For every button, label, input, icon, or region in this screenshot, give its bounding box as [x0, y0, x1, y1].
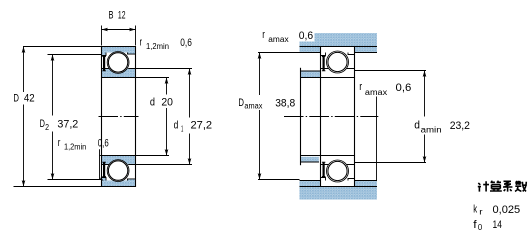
hanzi shu: [515, 181, 527, 192]
svg-text:k: k: [473, 204, 477, 216]
centerline left view: [99, 116, 139, 118]
hanzi suan: [490, 181, 502, 192]
svg-text:0,6: 0,6: [98, 138, 109, 150]
svg-text:1: 1: [181, 124, 184, 133]
svg-text:14: 14: [493, 219, 502, 231]
svg-text:D: D: [13, 93, 19, 105]
top section: ring outlines: [102, 47, 136, 78]
svg-text:23,2: 23,2: [450, 120, 470, 132]
svg-text:r: r: [140, 37, 143, 49]
dimension d 20: [136, 78, 170, 156]
housing seat lines top: [300, 46, 378, 48]
bearing side faces (left view): [102, 78, 136, 156]
bottom section: ball: [108, 161, 127, 180]
dimension Damax 38,8: [258, 53, 300, 180]
hanzi xi: [503, 181, 512, 191]
dimension d1 27,2: [136, 69, 193, 165]
bottom section: outer ring (blue): [102, 178, 136, 187]
dimension D 42: [14, 47, 102, 187]
housing seat lines bottom: [300, 186, 378, 188]
svg-text:42: 42: [24, 93, 35, 105]
svg-text:d: d: [174, 119, 179, 131]
centerline right view: [284, 116, 378, 118]
top section: shield (left): [103, 57, 105, 71]
svg-text:d: d: [414, 120, 420, 132]
hanzi ji: [478, 181, 489, 191]
svg-text:d: d: [150, 96, 155, 108]
dimension B 12: [102, 26, 136, 46]
shaft shoulder bottom (blue): [301, 157, 319, 162]
svg-text:37,2: 37,2: [57, 118, 78, 130]
right top section (white rings): [321, 47, 355, 78]
svg-text:0,6: 0,6: [180, 37, 192, 49]
bottom section: ring outlines: [102, 156, 136, 187]
svg-text:amax: amax: [244, 101, 262, 110]
svg-text:38,8: 38,8: [275, 97, 295, 109]
dimension D2 37,2: [48, 55, 102, 180]
right bottom section (white rings): [321, 156, 355, 187]
bottom section: shield (left): [103, 162, 105, 176]
svg-text:B: B: [109, 9, 114, 21]
svg-text:0: 0: [478, 223, 483, 232]
top section: inner ring (blue): [102, 69, 136, 78]
top section: ball: [108, 53, 127, 72]
housing shoulder lines bottom: [300, 180, 378, 182]
svg-text:amin: amin: [421, 126, 442, 135]
svg-text:r: r: [479, 207, 483, 216]
svg-text:20: 20: [161, 96, 173, 108]
housing shoulder lines top: [300, 52, 378, 54]
dimension d amin 23,2: [355, 71, 427, 163]
r leader bottom: [99, 149, 101, 180]
svg-text:0,025: 0,025: [493, 204, 521, 216]
svg-text:r: r: [58, 137, 61, 149]
top section: groove: [107, 52, 129, 74]
svg-text:D: D: [238, 97, 244, 109]
top section: outer ring (blue): [102, 47, 136, 56]
shaft step face: [300, 68, 302, 165]
housing band top (blue): [300, 33, 378, 53]
bottom section: inner ring (blue): [102, 156, 136, 165]
svg-text:12: 12: [118, 9, 126, 21]
svg-text:amax: amax: [365, 88, 387, 97]
housing band bottom (blue): [300, 181, 378, 200]
r amax leader: [376, 97, 378, 181]
shaft shoulder top (blue): [301, 71, 321, 78]
svg-text:r: r: [359, 81, 362, 93]
svg-text:1,2min: 1,2min: [64, 143, 86, 152]
svg-text:1,2min: 1,2min: [146, 42, 169, 51]
svg-text:27,2: 27,2: [191, 119, 213, 131]
svg-text:amax: amax: [268, 35, 288, 44]
svg-text:2: 2: [45, 123, 49, 132]
svg-text:r: r: [262, 29, 265, 41]
bottom section: groove: [107, 160, 129, 182]
Chinese title 计算系数 (vector strokes): [478, 181, 527, 192]
svg-text:0,6: 0,6: [299, 30, 313, 42]
svg-text:0,6: 0,6: [396, 82, 412, 94]
bearing side faces (right view): [321, 78, 355, 156]
